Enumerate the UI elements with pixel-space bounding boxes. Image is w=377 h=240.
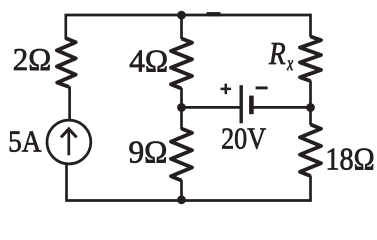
svg-text:R: R <box>268 37 286 71</box>
wire: lead 18ohm to bottom bus <box>309 176 312 202</box>
node dot: middle-left junction <box>177 103 186 112</box>
svg-text:20V: 20V <box>221 121 266 156</box>
wire: middle branch top lead <box>180 15 183 39</box>
current source I1 5A circle <box>47 120 91 164</box>
resistor R 18ohm <box>300 125 321 177</box>
label 9ohm <box>128 134 167 169</box>
wire: left branch top lead <box>64 14 67 40</box>
wire: lead Rx to node C <box>309 81 312 108</box>
resistor R 9ohm <box>171 129 192 181</box>
wire: bottom bus <box>67 199 311 202</box>
wire: top bus <box>66 14 311 17</box>
wire: right branch top lead <box>309 14 312 37</box>
label 4ohm <box>129 43 168 78</box>
label 20V <box>221 121 266 156</box>
label 5A <box>8 125 41 159</box>
label 2ohm <box>13 42 51 77</box>
resistor R 4ohm <box>171 39 192 89</box>
wire: lead source to bottom bus <box>65 165 68 202</box>
resistor R 2ohm <box>57 38 76 87</box>
wire: battery left lead <box>182 106 240 109</box>
wire: lead 2ohm to source <box>68 86 71 119</box>
node dot: bottom junction <box>177 195 186 204</box>
battery minus sign <box>256 86 268 89</box>
resistor Rx <box>300 37 321 82</box>
wire: top bus overlap stub <box>207 12 221 16</box>
wire: lead node B to 9ohm <box>180 107 183 129</box>
svg-text:x: x <box>286 51 293 75</box>
battery plus sign <box>221 84 232 95</box>
svg-text:4Ω: 4Ω <box>129 43 168 78</box>
current source arrow head <box>61 129 77 138</box>
node dot: middle-right junction <box>306 103 315 112</box>
current source arrow shaft <box>67 130 70 155</box>
svg-text:9Ω: 9Ω <box>128 134 167 169</box>
battery V1 negative short plate <box>249 96 254 115</box>
label Rx subscript x <box>286 51 293 75</box>
svg-text:5A: 5A <box>8 125 41 159</box>
label 18ohm <box>325 142 374 177</box>
node dot: top junction <box>177 11 186 20</box>
svg-text:2Ω: 2Ω <box>13 42 51 77</box>
wire: lead 4ohm to node B <box>180 88 183 107</box>
battery V1 positive long plate <box>239 85 242 123</box>
label Rx <box>268 37 286 71</box>
wire: lead 9ohm to bottom bus <box>180 180 183 201</box>
wire: battery right lead <box>253 106 311 109</box>
svg-text:18Ω: 18Ω <box>325 142 374 177</box>
wire: lead node C to 18ohm <box>309 107 312 125</box>
